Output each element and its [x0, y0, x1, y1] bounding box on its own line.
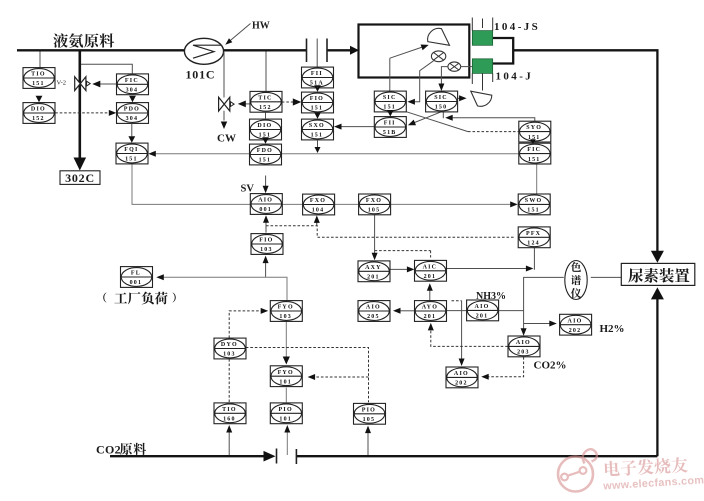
svg-text:PIO: PIO: [362, 407, 376, 413]
svg-text:FIC: FIC: [125, 78, 139, 84]
svg-text:203: 203: [517, 350, 530, 356]
svg-text:TIO: TIO: [222, 407, 237, 413]
svg-text:AIC: AIC: [423, 264, 438, 270]
svg-text:202: 202: [569, 328, 582, 334]
svg-text:FYO: FYO: [278, 305, 294, 311]
svg-text:SIC: SIC: [383, 95, 397, 101]
svg-text:001: 001: [259, 207, 272, 213]
svg-text:151: 151: [311, 133, 324, 139]
svg-text:TIO: TIO: [31, 72, 46, 78]
svg-text:150: 150: [435, 105, 448, 111]
svg-text:FL: FL: [131, 271, 141, 277]
svg-text:152: 152: [259, 105, 272, 111]
svg-text:202: 202: [455, 381, 468, 387]
svg-text:51B: 51B: [383, 130, 397, 136]
svg-text:FIO: FIO: [259, 238, 273, 244]
svg-text:103: 103: [223, 352, 236, 358]
svg-text:FYO: FYO: [278, 370, 294, 376]
svg-text:AIO: AIO: [258, 198, 273, 204]
svg-text:AIO: AIO: [568, 318, 583, 324]
svg-text:104-J: 104-J: [496, 71, 534, 83]
svg-text:FIO: FIO: [310, 96, 324, 102]
svg-text:101: 101: [279, 379, 292, 385]
svg-text:103: 103: [279, 314, 292, 320]
svg-text:160: 160: [223, 417, 236, 423]
svg-text:151: 151: [528, 157, 541, 163]
svg-text:103: 103: [260, 247, 273, 253]
svg-text:FXO: FXO: [310, 198, 326, 204]
svg-text:SWO: SWO: [525, 198, 543, 204]
svg-text:CO2: CO2: [96, 443, 121, 457]
svg-text:FIC: FIC: [527, 147, 541, 153]
svg-text:AXY: AXY: [365, 265, 382, 271]
svg-text:104: 104: [312, 208, 325, 214]
svg-text:SYO: SYO: [526, 125, 542, 131]
svg-text:SXO: SXO: [309, 123, 325, 129]
svg-text:FII: FII: [384, 121, 396, 127]
svg-text:201: 201: [367, 275, 380, 281]
svg-text:PIO: PIO: [279, 407, 293, 413]
svg-text:H2%: H2%: [600, 323, 625, 335]
svg-text:NH3%: NH3%: [476, 291, 506, 302]
svg-text:AYO: AYO: [422, 305, 438, 311]
svg-text:DYO: DYO: [221, 342, 238, 348]
svg-text:101C: 101C: [186, 68, 216, 82]
svg-text:SIC: SIC: [434, 95, 448, 101]
svg-text:302C: 302C: [65, 171, 95, 185]
svg-text:AIO: AIO: [516, 340, 531, 346]
svg-text:PDO: PDO: [124, 107, 140, 113]
svg-text:AIO: AIO: [475, 304, 490, 310]
svg-text:201: 201: [424, 314, 437, 320]
svg-text:151: 151: [32, 81, 45, 87]
svg-text:CO2%: CO2%: [534, 360, 567, 372]
svg-text:FII: FII: [311, 71, 323, 77]
svg-text:AIO: AIO: [366, 305, 381, 311]
svg-text:151: 151: [259, 158, 272, 164]
svg-text:AIO: AIO: [454, 371, 469, 377]
svg-text:001: 001: [130, 280, 143, 286]
svg-text:201: 201: [476, 314, 489, 320]
svg-text:101: 101: [279, 417, 292, 423]
svg-text:201: 201: [424, 274, 437, 280]
svg-text:DIO: DIO: [257, 123, 272, 129]
svg-text:205: 205: [367, 314, 380, 320]
svg-text:152: 152: [32, 116, 45, 122]
svg-text:SV: SV: [241, 184, 255, 195]
svg-text:105: 105: [363, 417, 376, 423]
svg-text:FXO: FXO: [366, 198, 382, 204]
svg-text:304: 304: [126, 88, 139, 94]
svg-text:FDO: FDO: [257, 148, 273, 154]
svg-text:104-JS: 104-JS: [494, 21, 540, 33]
svg-text:151: 151: [311, 106, 324, 112]
svg-text:PFX: PFX: [526, 231, 541, 237]
svg-text:FQI: FQI: [124, 147, 138, 153]
svg-text:151: 151: [383, 105, 396, 111]
svg-text:304: 304: [126, 116, 139, 122]
svg-text:DIO: DIO: [31, 107, 46, 113]
svg-text:TIC: TIC: [258, 95, 272, 101]
svg-text:105: 105: [368, 208, 381, 214]
svg-text:151: 151: [527, 208, 540, 214]
svg-text:CW: CW: [217, 133, 236, 145]
svg-text:HW: HW: [252, 21, 270, 32]
svg-text:V-2: V-2: [57, 80, 67, 87]
svg-text:124: 124: [527, 241, 540, 247]
svg-text:151: 151: [125, 157, 138, 163]
